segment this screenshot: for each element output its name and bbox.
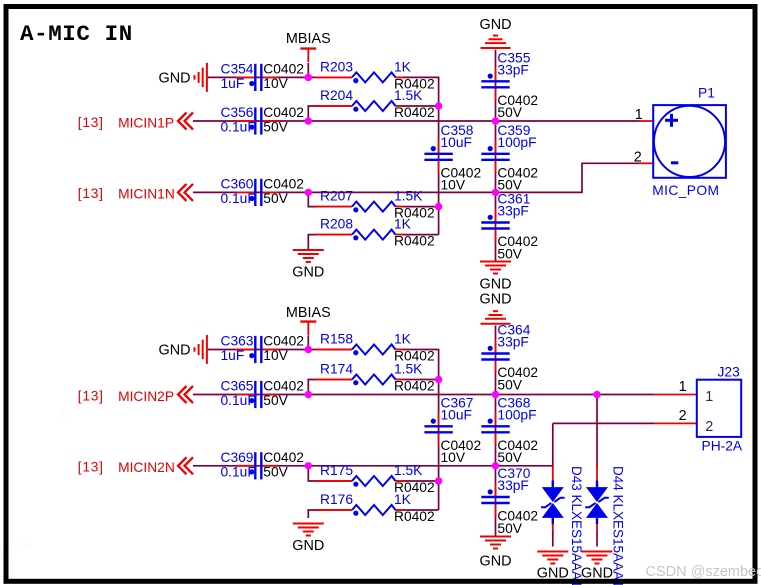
svg-text:C0402: C0402: [263, 450, 304, 465]
connector P1 MIC_POM: [634, 86, 726, 199]
svg-text:C365: C365: [221, 379, 254, 394]
svg-text:R158: R158: [320, 332, 353, 347]
wire GND to MBIAS2 node: [207, 349, 308, 351]
TVS diode D44: [585, 466, 609, 531]
svg-text:C360: C360: [221, 176, 254, 191]
ground GND below C370: [480, 537, 512, 570]
svg-text:C0402: C0402: [263, 105, 304, 120]
wire MICIN1N line to P1 pin2: [193, 163, 639, 192]
svg-text:MICIN1P: MICIN1P: [118, 115, 174, 130]
svg-text:GND: GND: [480, 553, 512, 569]
svg-text:1: 1: [679, 379, 687, 395]
junction R204 / chain1: [435, 102, 442, 109]
net label [13] MICIN2P: [78, 388, 104, 403]
svg-text:[13]: [13]: [78, 186, 104, 201]
svg-text:GND: GND: [292, 265, 324, 281]
ground GND below R208: [292, 250, 324, 281]
wire GND to C355 to MICIN1P: [495, 50, 497, 121]
wire GND to MBIAS node: [207, 76, 308, 78]
svg-text:50V: 50V: [263, 120, 288, 135]
junction MBIAS node: [305, 74, 312, 81]
svg-text:50V: 50V: [497, 450, 522, 465]
svg-text:10V: 10V: [441, 178, 466, 193]
svg-text:C0402: C0402: [263, 61, 304, 76]
wire C359 vertical: [495, 121, 497, 192]
junction MICIN1N / C359-C361: [492, 189, 499, 196]
svg-text:R0402: R0402: [394, 379, 435, 394]
wire R203 to chain node down: [396, 77, 439, 234]
off-page arrow MICIN1P: [178, 113, 193, 130]
watermark CSDN: [646, 564, 761, 580]
wire MICIN1P line: [193, 120, 639, 122]
junction MICIN1N / R207: [305, 189, 312, 196]
svg-text:2: 2: [705, 419, 713, 435]
wire MICIN2N up to pin2 level: [552, 423, 554, 465]
resistor R158 1K: [315, 332, 435, 364]
junction MICIN2N / R175: [305, 462, 312, 469]
label D44 KLXES15AAA1: [611, 466, 626, 585]
wire GND to C364 to MICIN2P: [495, 326, 497, 395]
svg-text:GND: GND: [159, 70, 191, 86]
junction MICIN1P / C355-C359: [492, 117, 499, 124]
ground GND left of C363: [159, 335, 207, 364]
wire C368 vertical: [495, 395, 497, 466]
wire R208 to GND: [308, 235, 352, 250]
capacitor C369 0.1uF: [221, 450, 304, 480]
svg-text:1.5K: 1.5K: [394, 463, 423, 478]
svg-text:R176: R176: [320, 492, 353, 507]
wire C370 to GND: [495, 466, 497, 537]
svg-text:C0402: C0402: [263, 334, 304, 349]
wire MBIAS2 stem: [307, 336, 309, 350]
junction MICIN1P / R204: [305, 117, 312, 124]
svg-text:R0402: R0402: [394, 234, 435, 249]
resistor R207 1.5K: [315, 189, 435, 221]
svg-text:0.1uF: 0.1uF: [221, 120, 256, 135]
svg-text:D43 KLXES15AAA1: D43 KLXES15AAA1: [569, 466, 584, 585]
svg-text:1.5K: 1.5K: [394, 189, 423, 204]
power symbol MBIAS (top): [286, 31, 331, 62]
svg-text:1.5K: 1.5K: [394, 362, 423, 377]
svg-text:33pF: 33pF: [497, 63, 528, 78]
svg-text:50V: 50V: [497, 521, 522, 536]
svg-text:R204: R204: [320, 88, 353, 103]
wire R158 to chain node down: [396, 350, 439, 511]
svg-text:0.1uF: 0.1uF: [221, 464, 256, 479]
capacitor C358 10uF: [424, 123, 481, 193]
svg-text:C369: C369: [221, 450, 254, 465]
off-page arrow MICIN2N: [178, 457, 193, 474]
svg-text:1: 1: [635, 107, 643, 123]
svg-text:50V: 50V: [263, 393, 288, 408]
svg-text:D44 KLXES15AAA1: D44 KLXES15AAA1: [611, 466, 626, 585]
svg-text:10V: 10V: [263, 76, 288, 91]
junction R207 / chain1: [435, 203, 442, 210]
wire D43 to GND: [552, 530, 554, 547]
svg-text:A-MIC IN: A-MIC IN: [20, 21, 133, 47]
svg-text:MBIAS: MBIAS: [286, 305, 331, 321]
resistor R204 1.5K: [315, 88, 435, 120]
wire MBIAS2 node to R158: [308, 349, 352, 351]
svg-text:2: 2: [634, 149, 642, 165]
net label [13] MICIN2N: [78, 460, 104, 475]
svg-text:1: 1: [705, 389, 713, 405]
resistor R176 1K: [315, 492, 435, 524]
connector J23 PH-2A: [654, 364, 743, 453]
ground GND below D43: [537, 552, 569, 582]
svg-text:10V: 10V: [441, 450, 466, 465]
svg-text:GND: GND: [480, 277, 512, 293]
svg-text:MICIN2P: MICIN2P: [118, 389, 174, 404]
TVS diode D43: [541, 466, 565, 531]
svg-text:MIC_POM: MIC_POM: [652, 183, 719, 198]
wire MICIN1P to R204: [308, 106, 352, 121]
wire R176 to GND: [308, 510, 352, 518]
svg-text:C354: C354: [221, 61, 254, 76]
svg-text:R175: R175: [320, 463, 353, 478]
wire MBIAS node to R203: [308, 76, 352, 78]
svg-text:50V: 50V: [497, 246, 522, 261]
junction MICIN2N / C368-C370: [492, 462, 499, 469]
svg-text:C356: C356: [221, 105, 254, 120]
wire D44 to GND: [596, 530, 598, 547]
capacitor C370 33pF: [481, 466, 538, 536]
svg-text:50V: 50V: [263, 191, 288, 206]
off-page arrow MICIN2P: [178, 386, 193, 403]
capacitor C354 1uF: [221, 61, 304, 91]
power symbol MBIAS (bottom): [286, 305, 331, 335]
svg-text:P1: P1: [698, 86, 715, 101]
svg-text:GND: GND: [480, 17, 512, 33]
svg-text:10uF: 10uF: [441, 135, 472, 150]
svg-text:50V: 50V: [263, 464, 288, 479]
wire to J23 pin2: [553, 422, 654, 424]
wire MICIN2P to R174: [308, 380, 352, 395]
title A-MIC IN: [20, 21, 133, 47]
junction MICIN2P / D44: [593, 391, 600, 398]
svg-text:50V: 50V: [497, 178, 522, 193]
svg-text:R0402: R0402: [394, 509, 435, 524]
svg-text:C0402: C0402: [263, 379, 304, 394]
svg-text:MICIN1N: MICIN1N: [118, 187, 175, 202]
capacitor C364 33pF: [481, 323, 538, 393]
ground GND below C361: [480, 262, 512, 293]
wire MBIAS stem: [307, 63, 309, 77]
off-page arrow MICIN1N: [178, 184, 193, 201]
wire C361 to GND: [495, 192, 497, 261]
capacitor C365 0.1uF: [221, 379, 304, 409]
ground GND below D44: [581, 552, 613, 582]
svg-text:10V: 10V: [263, 348, 288, 363]
svg-text:33pF: 33pF: [497, 204, 528, 219]
ground GND below R176: [292, 524, 324, 555]
label D43 KLXES15AAA1: [569, 466, 584, 585]
svg-text:0.1uF: 0.1uF: [221, 191, 256, 206]
wire R174 to node: [396, 379, 439, 381]
wire MICIN2N to R175: [308, 466, 352, 481]
svg-text:1uF: 1uF: [221, 76, 245, 91]
junction MICIN2P / C364-C368: [492, 391, 499, 398]
svg-text:33pF: 33pF: [497, 335, 528, 350]
capacitor C367 10uF: [424, 395, 481, 465]
svg-text:1K: 1K: [394, 217, 412, 232]
wire D44 top: [596, 395, 598, 469]
svg-text:1.5K: 1.5K: [394, 88, 423, 103]
capacitor C356 0.1uF: [221, 105, 304, 135]
svg-text:MBIAS: MBIAS: [286, 31, 331, 47]
svg-text:33pF: 33pF: [497, 478, 528, 493]
svg-text:R203: R203: [320, 60, 353, 75]
wire MICIN1N to R207: [308, 192, 352, 206]
svg-text:1K: 1K: [394, 332, 412, 347]
svg-text:10uF: 10uF: [441, 408, 472, 423]
capacitor C363 1uF: [221, 334, 304, 364]
resistor R208 1K: [315, 217, 435, 249]
wire D43 top: [552, 466, 554, 468]
capacitor C368 100pF: [481, 395, 538, 465]
svg-text:[13]: [13]: [78, 460, 104, 475]
resistor R175 1.5K: [315, 463, 435, 495]
svg-text:C363: C363: [221, 334, 254, 349]
wire R176 to node: [396, 509, 439, 511]
svg-text:50V: 50V: [497, 105, 522, 120]
junction MICIN2P / R174: [305, 391, 312, 398]
resistor R203 1K: [315, 60, 435, 92]
svg-text:50V: 50V: [497, 377, 522, 392]
svg-text:R207: R207: [320, 189, 353, 204]
svg-text:0.1uF: 0.1uF: [221, 393, 256, 408]
svg-text:GND: GND: [480, 291, 512, 307]
svg-text:1K: 1K: [394, 60, 412, 75]
wire MICIN2N line: [193, 465, 553, 467]
svg-text:C0402: C0402: [263, 176, 304, 191]
wire R204 to node: [396, 105, 439, 107]
capacitor C359 100pF: [481, 123, 538, 193]
net label [13] MICIN1N: [78, 186, 104, 201]
svg-text:2: 2: [679, 408, 687, 424]
svg-text:[13]: [13]: [78, 115, 104, 130]
svg-text:R0402: R0402: [394, 105, 435, 120]
wire MICIN2P line to J23 pin1: [193, 394, 654, 396]
wire R208 to node: [396, 234, 439, 236]
svg-text:R208: R208: [320, 217, 353, 232]
capacitor C355 33pF: [481, 50, 538, 120]
svg-text:1K: 1K: [394, 492, 412, 507]
svg-text:J23: J23: [718, 364, 741, 379]
svg-text:100pF: 100pF: [497, 135, 536, 150]
svg-text:GND: GND: [292, 538, 324, 554]
ground GND above C355: [480, 17, 512, 48]
wire R207 to node: [396, 206, 439, 208]
resistor R174 1.5K: [315, 362, 435, 394]
svg-text:MICIN2N: MICIN2N: [118, 460, 175, 475]
svg-text:PH-2A: PH-2A: [702, 439, 743, 454]
junction R175 / chain1: [435, 477, 442, 484]
capacitor C361 33pF: [481, 192, 538, 262]
svg-text:GND: GND: [159, 343, 191, 359]
ground GND above C364: [480, 291, 512, 323]
junction MBIAS2 node: [305, 346, 312, 353]
wire R175 to node: [396, 480, 439, 482]
svg-text:CSDN @szembedd: CSDN @szembedd: [646, 564, 761, 580]
junction R174 / chain1: [435, 376, 442, 383]
faint background watermark: [0, 120, 570, 563]
svg-text:1uF: 1uF: [221, 348, 245, 363]
svg-text:R174: R174: [320, 362, 353, 377]
ground GND left of C354: [159, 63, 207, 92]
net label [13] MICIN1P: [78, 115, 104, 130]
svg-text:[13]: [13]: [78, 388, 104, 403]
capacitor C360 0.1uF: [221, 176, 304, 206]
svg-text:100pF: 100pF: [497, 408, 536, 423]
